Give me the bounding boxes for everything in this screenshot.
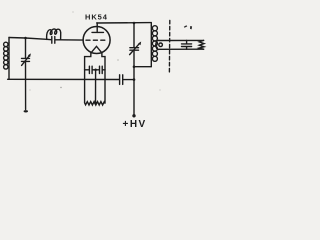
wire center tap down	[95, 70, 97, 104]
capacitor C6 HV bypass	[120, 75, 134, 85]
wire tank bottom stub	[134, 66, 151, 68]
node center-tap junction	[94, 69, 97, 72]
wire C1 branch lower to bias terminal	[25, 62, 27, 110]
wire ground bus rail	[8, 78, 119, 80]
output link loop left end	[156, 40, 159, 49]
capacitor C5 output	[182, 40, 192, 49]
wire HV column upper	[133, 23, 135, 47]
tube U1 filament	[91, 46, 102, 53]
node junction at C1 branch	[24, 37, 27, 40]
terminal +HV	[132, 114, 135, 117]
wire HV column lower	[133, 50, 135, 115]
node R1 center tap	[94, 102, 97, 105]
wire output line bottom	[159, 48, 204, 50]
svg-text:+HV: +HV	[123, 119, 147, 130]
wire C1 branch upper	[25, 38, 27, 58]
node anode-branch junction	[133, 22, 136, 25]
coupling boundary dashed line	[168, 21, 170, 73]
lamp load zigzag	[199, 40, 204, 49]
node tank bottom junction	[133, 65, 136, 68]
capacitor C3b filament bypass right	[96, 66, 106, 73]
annotation small marks top right	[184, 25, 192, 29]
inductor L1 input coil	[4, 38, 9, 80]
tube U1 grid (dashed)	[86, 39, 105, 41]
tube U1 plate	[92, 23, 104, 33]
capacitor C4 tank variable	[130, 42, 142, 55]
wire anode top to tank	[97, 22, 151, 24]
inductor L3 tank coil	[151, 23, 157, 67]
capacitor C2 grid series	[47, 37, 61, 44]
tube U1 filament leads and base	[85, 53, 105, 103]
wire top-left from L1 to grid circuit	[9, 38, 47, 40]
link turn circle	[159, 43, 163, 47]
scan speckles	[30, 12, 161, 91]
node bypass junction	[133, 78, 136, 81]
terminal bias	[24, 110, 28, 112]
wire output line top	[159, 39, 204, 41]
svg-text:HK54: HK54	[85, 12, 108, 21]
capacitor C3a filament bypass left	[85, 66, 96, 73]
tube U1 HK54 envelope	[83, 27, 110, 54]
resistor R1 filament center-tap	[85, 102, 105, 105]
capacitor C1 variable tuning	[22, 53, 31, 65]
wire grid lead to tube	[61, 39, 84, 41]
inductor L2 grid choke loops	[47, 29, 61, 40]
